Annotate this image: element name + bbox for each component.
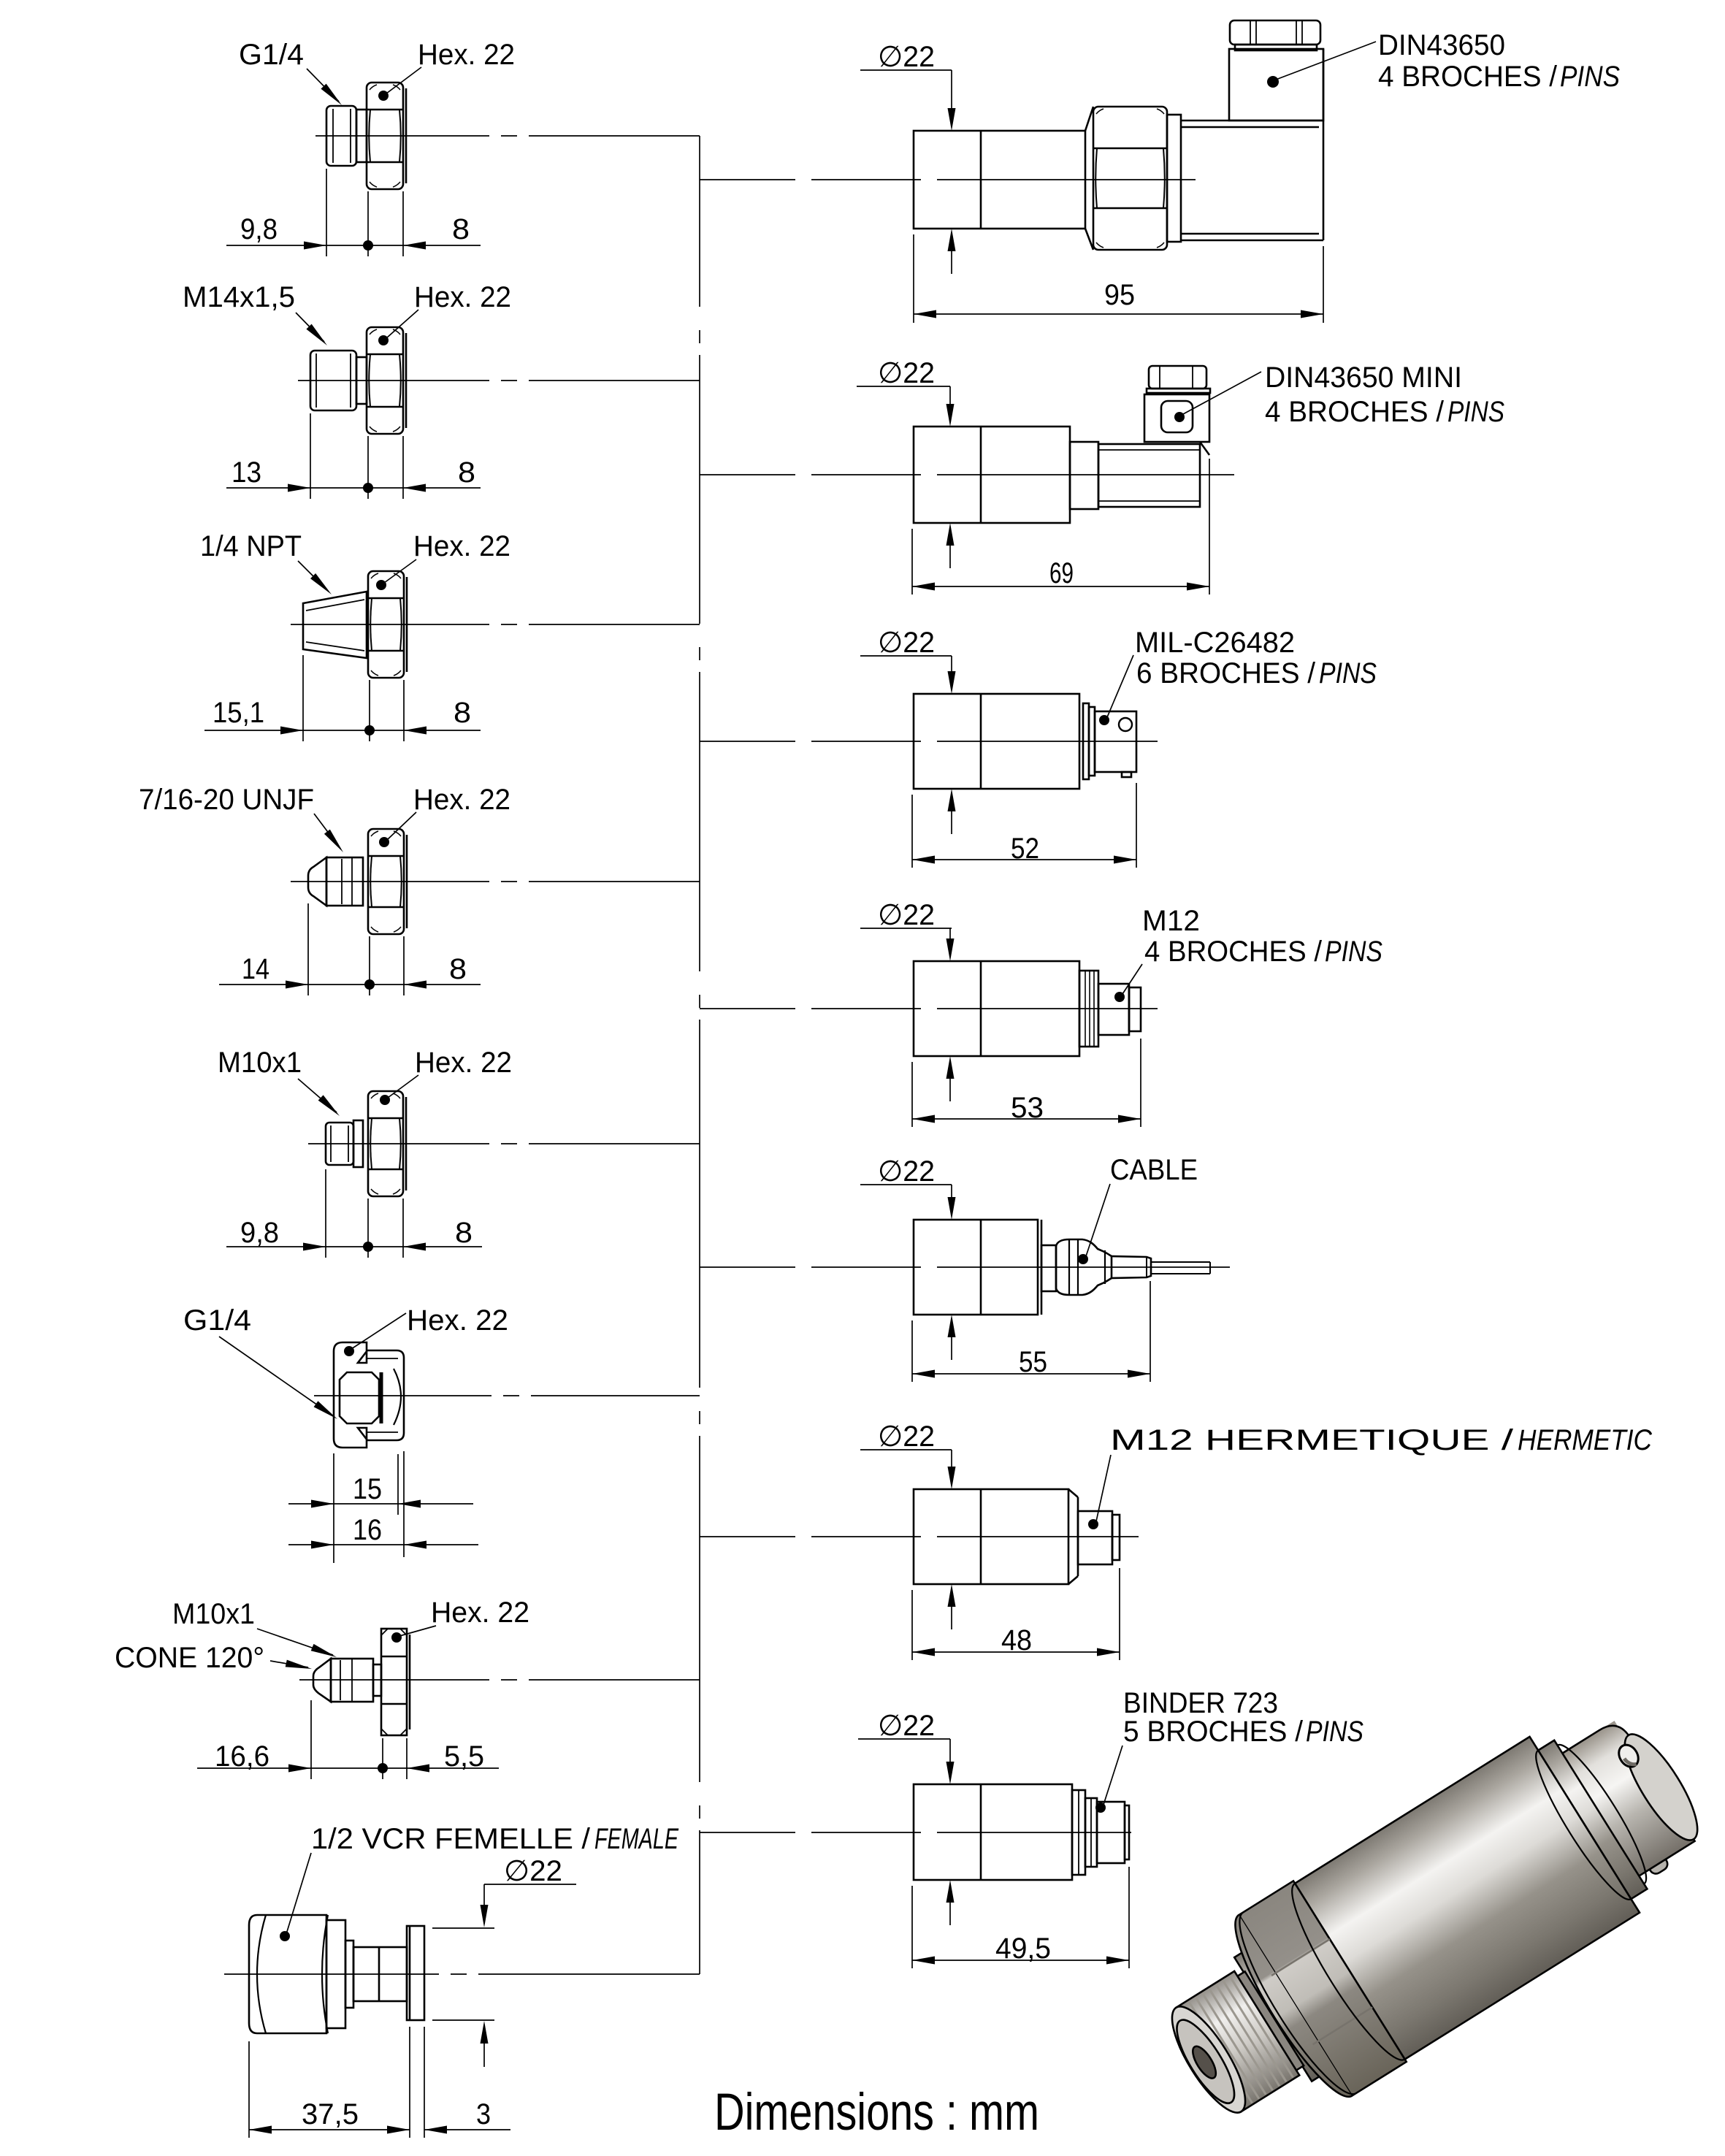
- svg-text:5 BROCHES /: 5 BROCHES /: [1123, 1716, 1304, 1748]
- svg-text:13: 13: [232, 456, 261, 489]
- svg-text:Hex. 22: Hex. 22: [407, 1304, 508, 1337]
- svg-text:55: 55: [1019, 1346, 1047, 1378]
- svg-text:HERMETIC: HERMETIC: [1518, 1424, 1653, 1456]
- svg-text:∅22: ∅22: [878, 41, 935, 73]
- svg-text:9,8: 9,8: [240, 213, 278, 245]
- svg-text:Hex. 22: Hex. 22: [418, 39, 515, 71]
- svg-text:Hex. 22: Hex. 22: [413, 530, 510, 562]
- svg-text:14: 14: [242, 953, 269, 985]
- svg-text:∅22: ∅22: [878, 1421, 935, 1453]
- svg-text:69: 69: [1049, 557, 1074, 589]
- svg-text:M14x1,5: M14x1,5: [183, 281, 295, 313]
- svg-text:M12 HERMETIQUE /: M12 HERMETIQUE /: [1110, 1424, 1514, 1456]
- svg-text:CONE 120°: CONE 120°: [115, 1642, 264, 1674]
- svg-text:8: 8: [454, 697, 471, 729]
- svg-text:DIN43650: DIN43650: [1378, 29, 1505, 61]
- svg-text:8: 8: [449, 953, 467, 985]
- svg-text:M10x1: M10x1: [172, 1598, 255, 1630]
- svg-text:4 BROCHES /: 4 BROCHES /: [1265, 396, 1445, 428]
- svg-text:∅22: ∅22: [878, 899, 935, 931]
- svg-text:Hex. 22: Hex. 22: [414, 281, 511, 313]
- svg-text:G1/4: G1/4: [239, 39, 304, 71]
- svg-text:8: 8: [455, 1217, 473, 1249]
- svg-text:8: 8: [452, 213, 470, 245]
- svg-text:3: 3: [476, 2098, 491, 2130]
- svg-text:1/4 NPT: 1/4 NPT: [200, 530, 302, 562]
- svg-text:PINS: PINS: [1447, 396, 1504, 428]
- svg-text:FEMALE: FEMALE: [594, 1823, 679, 1855]
- svg-text:49,5: 49,5: [995, 1933, 1051, 1965]
- svg-text:Hex. 22: Hex. 22: [431, 1597, 529, 1629]
- svg-text:48: 48: [1001, 1624, 1032, 1656]
- svg-text:M12: M12: [1142, 905, 1200, 937]
- svg-text:6 BROCHES /: 6 BROCHES /: [1136, 657, 1316, 689]
- svg-text:∅22: ∅22: [504, 1855, 562, 1887]
- svg-text:BINDER 723: BINDER 723: [1123, 1687, 1278, 1719]
- svg-text:DIN43650 MINI: DIN43650 MINI: [1265, 362, 1462, 394]
- svg-text:∅22: ∅22: [878, 627, 935, 659]
- svg-text:Hex. 22: Hex. 22: [413, 784, 510, 816]
- svg-text:15: 15: [353, 1473, 382, 1505]
- svg-text:7/16-20 UNJF: 7/16-20 UNJF: [139, 784, 314, 816]
- svg-text:M10x1: M10x1: [218, 1047, 302, 1079]
- svg-text:Dimensions : mm: Dimensions : mm: [714, 2084, 1039, 2141]
- svg-text:9,8: 9,8: [240, 1217, 279, 1249]
- svg-text:52: 52: [1011, 833, 1039, 865]
- svg-text:53: 53: [1011, 1092, 1044, 1124]
- svg-text:PINS: PINS: [1560, 61, 1620, 93]
- svg-text:37,5: 37,5: [302, 2098, 359, 2130]
- svg-text:PINS: PINS: [1319, 657, 1377, 689]
- svg-text:4 BROCHES /: 4 BROCHES /: [1378, 61, 1558, 93]
- svg-text:4 BROCHES /: 4 BROCHES /: [1144, 936, 1323, 968]
- svg-text:1/2 VCR FEMELLE /: 1/2 VCR FEMELLE /: [311, 1823, 591, 1855]
- svg-text:16,6: 16,6: [215, 1740, 269, 1773]
- svg-text:∅22: ∅22: [878, 357, 935, 389]
- svg-text:95: 95: [1104, 279, 1135, 311]
- svg-text:PINS: PINS: [1325, 936, 1382, 968]
- svg-text:Hex. 22: Hex. 22: [415, 1047, 512, 1079]
- svg-text:CABLE: CABLE: [1110, 1154, 1198, 1186]
- svg-text:G1/4: G1/4: [183, 1304, 251, 1337]
- svg-text:8: 8: [458, 456, 475, 489]
- svg-text:5,5: 5,5: [444, 1740, 484, 1773]
- svg-text:16: 16: [353, 1514, 382, 1546]
- svg-text:∅22: ∅22: [878, 1710, 935, 1742]
- svg-text:∅22: ∅22: [878, 1155, 935, 1188]
- svg-text:PINS: PINS: [1306, 1716, 1363, 1748]
- svg-text:15,1: 15,1: [213, 697, 264, 729]
- svg-text:MIL-C26482: MIL-C26482: [1135, 627, 1295, 659]
